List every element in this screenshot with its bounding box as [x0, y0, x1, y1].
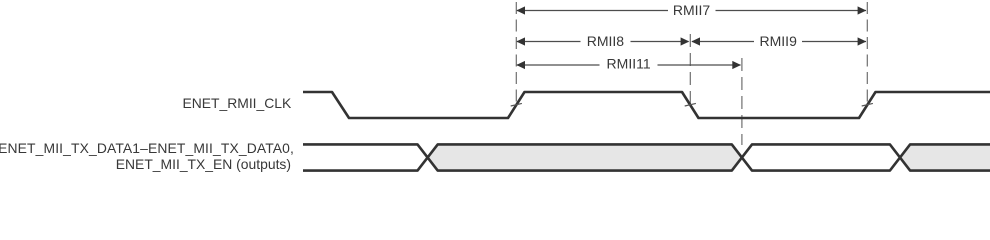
dimension RMII11 left arrowhead: [516, 61, 525, 69]
svg-text:RMII11: RMII11: [607, 56, 651, 72]
mid-level tick on clock rising edge at x=867: [862, 103, 873, 106]
dimension RMII7 left arrowhead: [516, 6, 525, 14]
shaded bus segment 1 (between first and second data transitions): [428, 144, 742, 170]
data bus waveform lower zigzag: [303, 144, 990, 170]
dimension RMII9 left arrowhead: [691, 37, 700, 45]
shaded bus segment 2 (right of third data transition): [900, 144, 990, 170]
data bus waveform upper zigzag: [303, 144, 990, 170]
dimension RMII8 line: [517, 41, 689, 43]
mid-level tick on clock rising edge at x=516: [511, 103, 522, 106]
svg-text:RMII7: RMII7: [673, 2, 711, 18]
dashed extension line at x=742 (RMII11 end, data transition): [741, 58, 743, 145]
dashed extension line at x=690 (RMII8/RMII9 boundary, clock falling edge): [689, 34, 691, 105]
dashed extension line at x=516 (left reference, RMII7/RMII8/RMII11 start): [515, 2, 517, 105]
dimension RMII9 right arrowhead: [858, 37, 867, 45]
dimension RMII7 line: [517, 10, 866, 12]
dimension RMII7 right arrowhead: [858, 6, 867, 14]
dimension RMII8 left arrowhead: [516, 37, 525, 45]
svg-text:RMII9: RMII9: [760, 33, 798, 49]
dashed extension line at x=867 (right reference, RMII7/RMII9 end): [866, 2, 868, 105]
dimension RMII11 right arrowhead: [732, 61, 741, 69]
ENET_RMII_CLK waveform: [303, 92, 990, 118]
dimension RMII8 right arrowhead: [681, 37, 690, 45]
dimension RMII9 line: [692, 41, 866, 43]
svg-text:ENET_MII_TX_EN (outputs): ENET_MII_TX_EN (outputs): [116, 156, 291, 172]
dimension RMII11 line: [517, 64, 741, 66]
svg-text:RMII8: RMII8: [587, 33, 625, 49]
mid-level tick on clock falling edge at x=690: [685, 103, 696, 106]
svg-text:ENET_RMII_CLK: ENET_RMII_CLK: [182, 95, 292, 111]
svg-text:ENET_MII_TX_DATA1–ENET_MII_TX_: ENET_MII_TX_DATA1–ENET_MII_TX_DATA0,: [0, 140, 294, 156]
